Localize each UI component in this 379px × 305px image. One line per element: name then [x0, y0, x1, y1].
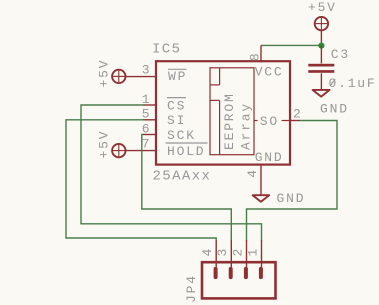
net SI wire segments: [66, 120, 216, 241]
svg-text:Array: Array: [239, 102, 254, 150]
svg-text:25AAxx: 25AAxx: [153, 169, 212, 185]
svg-text:SI: SI: [167, 113, 186, 128]
supply +5V P2 circle symbol: [112, 70, 125, 83]
pin 6 SCK stub: [143, 134, 157, 136]
svg-text:WP: WP: [168, 69, 187, 84]
EEPROM array inner box: [210, 68, 258, 155]
pin 8 VCC stub: [260, 45, 262, 62]
connector JP4 body box: [202, 262, 276, 298]
pin 1 CS stub: [143, 104, 157, 106]
svg-text:+5V: +5V: [308, 0, 337, 15]
supply +5V P3 circle symbol: [112, 144, 125, 157]
wire VCC net (pin8 to junction): [261, 44, 321, 46]
connector JP4 pin stubs (red): [216, 240, 261, 267]
svg-text:4: 4: [200, 247, 215, 257]
pin name CS with overline: [167, 97, 186, 99]
supply +5V P1 pin stub: [320, 30, 322, 45]
svg-text:3: 3: [142, 62, 152, 77]
svg-text:8: 8: [247, 51, 262, 61]
wire pin3 WP stub: [126, 76, 157, 78]
capacitor C3 bottom pin stub: [320, 73, 322, 89]
svg-text:SCK: SCK: [167, 128, 196, 143]
svg-text:GND: GND: [320, 101, 349, 116]
svg-text:1: 1: [245, 247, 260, 257]
pin name WP with overline: [168, 68, 187, 70]
ground symbol under C3: [313, 90, 330, 97]
svg-text:C3: C3: [331, 47, 350, 62]
svg-text:CS: CS: [167, 98, 186, 113]
IC U1 body box: [156, 61, 290, 164]
pin 2 SO stub: [290, 120, 300, 122]
pin name HOLD with overline: [166, 142, 208, 144]
svg-text:0.1uF: 0.1uF: [329, 76, 377, 91]
capacitor C3 plates: [308, 64, 334, 73]
svg-text:VCC: VCC: [255, 64, 284, 79]
wire pin7 HOLD stub: [126, 150, 157, 152]
pin 4 GND stub: [260, 164, 262, 195]
pin 2 inner tick: [282, 120, 290, 122]
svg-text:2: 2: [293, 106, 303, 121]
pin 5 SI stub: [143, 119, 157, 121]
net SCK wire segments: [142, 135, 232, 241]
svg-text:EEPROM: EEPROM: [222, 92, 237, 150]
svg-text:+5V: +5V: [97, 130, 112, 159]
svg-text:2: 2: [230, 247, 245, 257]
svg-text:GND: GND: [255, 150, 284, 165]
supply +5V P1 circle symbol: [315, 17, 328, 30]
svg-text:SO: SO: [260, 114, 279, 129]
net CS wire segments: [81, 105, 262, 241]
junction dot VCC node: [318, 43, 324, 49]
svg-text:IC5: IC5: [152, 42, 181, 58]
capacitor C3 top pin stub: [320, 46, 322, 64]
svg-text:4: 4: [245, 168, 260, 178]
svg-text:7: 7: [142, 136, 152, 151]
connector JP4 pads: [214, 267, 263, 279]
svg-text:GND: GND: [277, 191, 306, 206]
svg-text:JP4: JP4: [184, 274, 199, 303]
net SO wire segments: [247, 121, 338, 241]
svg-text:+5V: +5V: [97, 59, 112, 88]
svg-text:HOLD: HOLD: [167, 144, 205, 159]
svg-text:3: 3: [215, 247, 230, 257]
ground symbol under IC: [253, 195, 270, 202]
